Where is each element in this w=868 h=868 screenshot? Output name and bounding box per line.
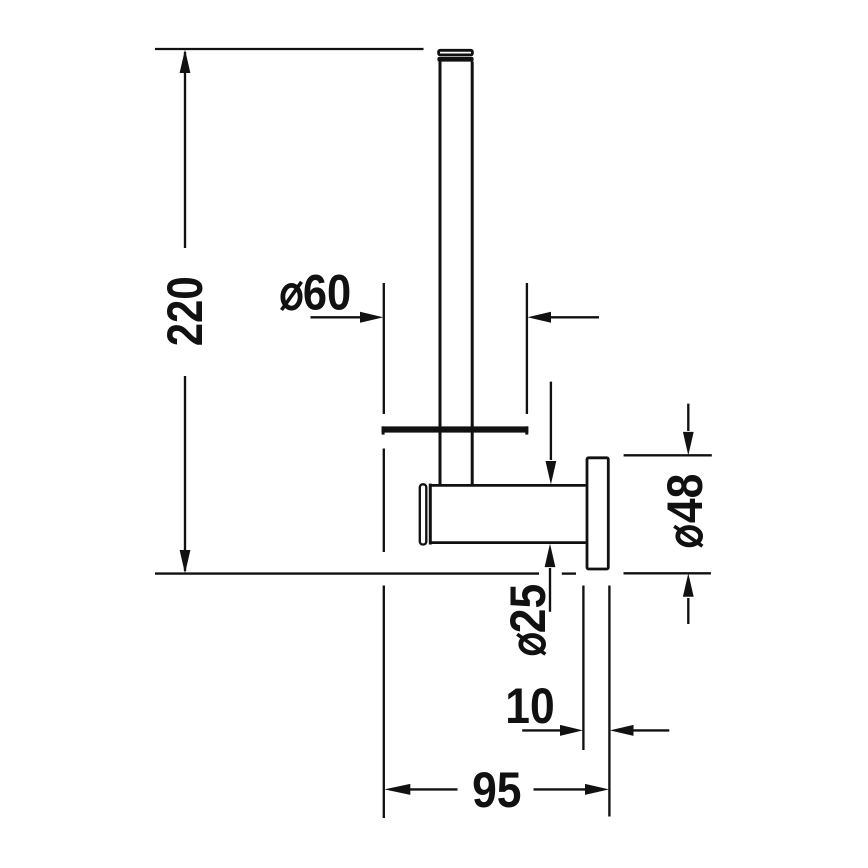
svg-text:48: 48 xyxy=(657,474,713,523)
svg-text:95: 95 xyxy=(472,762,521,818)
svg-text:10: 10 xyxy=(505,679,554,735)
svg-text:220: 220 xyxy=(156,276,213,346)
svg-text:60: 60 xyxy=(303,263,351,320)
svg-text:25: 25 xyxy=(500,584,556,633)
